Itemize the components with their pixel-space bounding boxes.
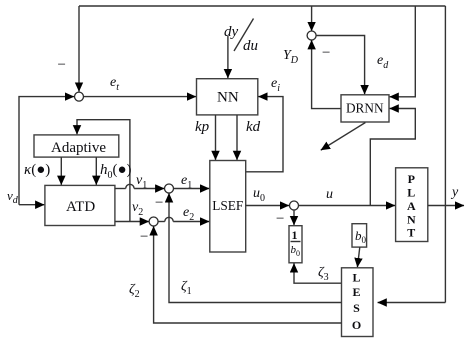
wire top feedback line carrying y across the top bbox=[79, 6, 445, 92]
wire zeta3 from LESO to 1/b0 bbox=[294, 263, 342, 283]
wire v_d branch up to e_t junction bbox=[19, 97, 74, 205]
wire y branch to DRNN upper input bbox=[390, 6, 416, 97]
label dy/du bbox=[224, 19, 258, 55]
svg-text:L: L bbox=[407, 186, 415, 200]
summing junction 3 bbox=[290, 201, 299, 210]
summing junction Y_D bbox=[307, 31, 316, 40]
wire feedback tap from v2 up to Adaptive bbox=[77, 120, 130, 222]
svg-text:P: P bbox=[408, 172, 415, 186]
block 1/b0 bbox=[289, 226, 302, 263]
summing junction 2 bbox=[149, 217, 158, 226]
wire kd from NN to LSEF bbox=[236, 115, 238, 160]
wire kp from NN to LSEF bbox=[215, 115, 217, 160]
block DRNN bbox=[341, 95, 389, 122]
svg-text:S: S bbox=[353, 301, 360, 315]
svg-text:ATD: ATD bbox=[66, 199, 95, 215]
wire junction 3 down to 1/b0 block bbox=[293, 210, 295, 225]
wire dy/du into NN top bbox=[227, 36, 229, 78]
block NN bbox=[197, 79, 258, 115]
block PLANT bbox=[396, 168, 428, 242]
wire e_t to NN bbox=[84, 96, 196, 98]
wire u0 from LSEF to junction 3 bbox=[246, 205, 289, 207]
svg-text:−: − bbox=[321, 45, 331, 61]
svg-text:LSEF: LSEF bbox=[212, 199, 243, 214]
svg-text:E: E bbox=[352, 285, 360, 299]
svg-text:Adaptive: Adaptive bbox=[51, 140, 106, 156]
wire y output bbox=[428, 205, 464, 207]
block ATD bbox=[45, 185, 115, 225]
block Adaptive bbox=[34, 135, 119, 157]
wire e2 to LSEF with hop bbox=[158, 217, 209, 221]
svg-text:−: − bbox=[275, 211, 285, 227]
svg-text:DRNN: DRNN bbox=[346, 102, 384, 117]
wire zeta2 from LESO to junction 2 bbox=[154, 226, 342, 323]
wire v_d input into ATD bbox=[19, 204, 44, 206]
summing junction e_t bbox=[75, 92, 84, 101]
svg-text:O: O bbox=[352, 318, 361, 332]
wire e_d from junction to DRNN bbox=[316, 36, 365, 95]
wire Y_D branch from top line down to junction bbox=[311, 6, 313, 31]
wire kappa gain from Adaptive to ATD bbox=[60, 157, 62, 185]
block b0 bbox=[352, 224, 367, 247]
wire v2 from ATD to junction 2 bbox=[115, 221, 149, 223]
wire y feedback vertical to top line and LESO bbox=[378, 6, 446, 303]
svg-text:u: u bbox=[326, 187, 333, 202]
wire u line from junction 3 to PLANT bbox=[299, 205, 396, 207]
svg-text:1: 1 bbox=[292, 228, 298, 242]
svg-text:−: − bbox=[57, 57, 67, 73]
svg-text:−: − bbox=[139, 229, 149, 245]
svg-text:du: du bbox=[243, 38, 258, 54]
svg-text:L: L bbox=[352, 271, 360, 285]
svg-text:y: y bbox=[450, 185, 459, 200]
svg-text:dy: dy bbox=[224, 24, 239, 40]
wire h0 gain from Adaptive to ATD bbox=[95, 157, 97, 185]
svg-text:N: N bbox=[407, 213, 416, 227]
block LESO bbox=[342, 268, 374, 337]
summing junction 1 bbox=[165, 184, 174, 193]
svg-text:kp: kp bbox=[195, 119, 210, 135]
svg-text:κ(●): κ(●) bbox=[24, 162, 50, 178]
wire e_i feedback from LSEF to NN bbox=[246, 97, 283, 172]
wire u tap up to DRNN lower input bbox=[370, 109, 415, 206]
wire DRNN output up to Y_D junction bbox=[312, 40, 341, 108]
block LSEF bbox=[210, 161, 246, 253]
svg-text:−: − bbox=[154, 195, 164, 211]
wire v1 from ATD to junction 1 with hop bbox=[115, 184, 164, 188]
wire e1 to LSEF bbox=[174, 188, 210, 190]
svg-text:T: T bbox=[407, 226, 415, 240]
arrow from DRNN pointing toward dy/du bbox=[321, 123, 366, 151]
wire zeta1 from LESO to junction 1 bbox=[169, 193, 342, 302]
svg-text:kd: kd bbox=[246, 119, 261, 135]
wire b0 into LESO bbox=[357, 247, 359, 267]
svg-text:NN: NN bbox=[217, 90, 239, 106]
svg-text:A: A bbox=[407, 199, 416, 213]
